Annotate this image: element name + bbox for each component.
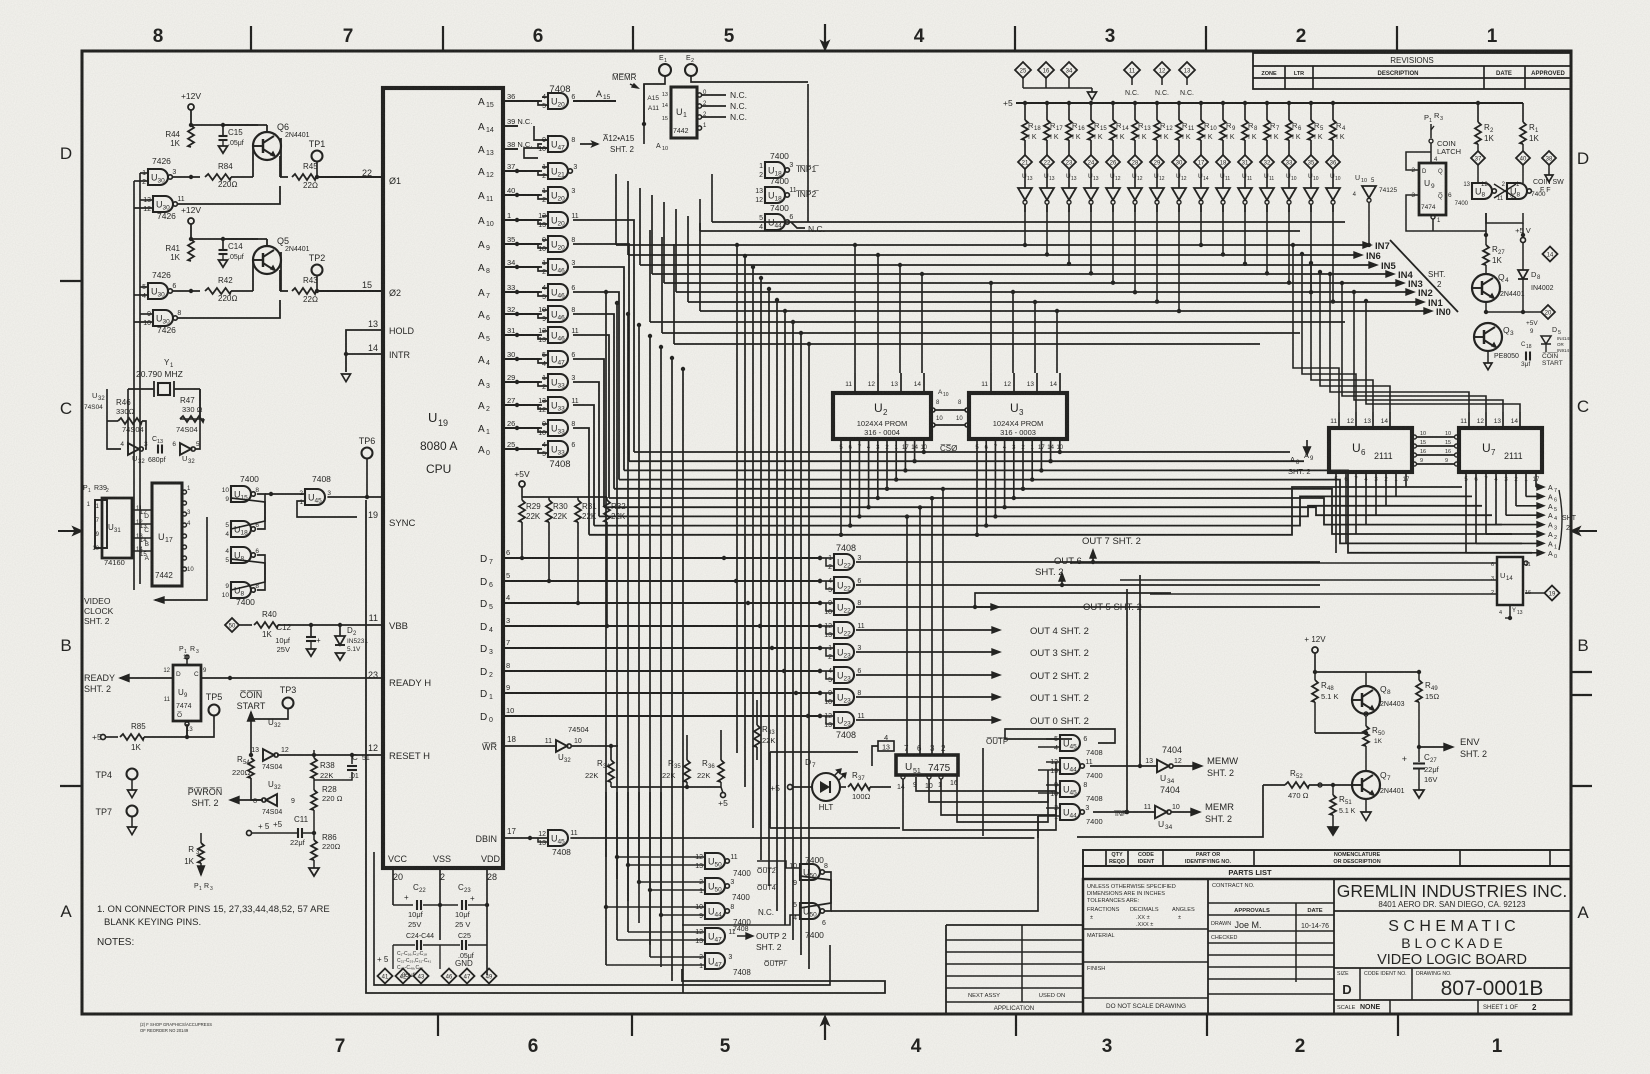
- diamond 19: [1525, 592, 1545, 594]
- resistor R32 22K: [604, 500, 610, 522]
- U45a output loop: [1005, 729, 1115, 743]
- buffer gate U46 at A-row 7: [548, 284, 568, 300]
- PROM top pin 13: [900, 373, 902, 393]
- zener D2 IN5231 5.1V: [338, 623, 342, 627]
- RAM bottom pin 2: [1385, 472, 1387, 506]
- wire corner A-line 0: [573, 220, 634, 452]
- PROM bottom pin 14: [914, 439, 916, 461]
- RAM top pin 11: [1338, 412, 1340, 428]
- resistor R34 22K: [608, 760, 614, 782]
- OUTP wire: [983, 747, 1040, 809]
- sheet center arrow top: [824, 24, 826, 44]
- buffer U13 74125: [1046, 169, 1048, 188]
- gate U44 7400: [1060, 804, 1080, 820]
- sheet center arrow left: [58, 530, 76, 532]
- wire D4 bus: [503, 625, 820, 627]
- wire midbus y534.8 staircase: [589, 487, 1462, 535]
- connector diamond 21: [1018, 155, 1032, 169]
- resistor R48 5.1K: [1312, 680, 1318, 702]
- RAM link pin 15: [1413, 444, 1417, 448]
- resistor R16 1K: [1067, 101, 1071, 105]
- MEMW SHT.2: [1173, 765, 1195, 767]
- test point TP1: [312, 151, 323, 162]
- left edge connector P1R39 stubs: [95, 500, 107, 548]
- net A6 to SHT2: [1526, 495, 1538, 497]
- wire PROM U2 pin feed 0: [854, 245, 856, 373]
- RAM top pin 12: [1485, 412, 1487, 428]
- VBB row: [225, 618, 239, 632]
- resistor R17 1K: [1045, 101, 1049, 105]
- resistor R43 22 ohm: [280, 252, 282, 291]
- wire trunk2 x769: [768, 289, 770, 886]
- wire buffer 0 drop: [1024, 204, 1026, 245]
- resistor R52 470: [1285, 782, 1309, 788]
- net OUT5: [856, 606, 1320, 608]
- gate U44 7400 cluster: [705, 903, 725, 919]
- gate U23 7408 OUT row: [834, 689, 854, 705]
- net OUT1: [856, 696, 992, 698]
- NAND U30 b: [153, 196, 173, 212]
- connector diamond 23: [1062, 155, 1076, 169]
- wire trunk2 x761: [760, 278, 762, 860]
- buffer U13 74125: [1024, 169, 1026, 188]
- capacitor C12 10uF 25V: [309, 623, 313, 627]
- wire trunk x628: [627, 314, 629, 932]
- PROM bottom pin 1: [895, 439, 897, 480]
- parts list row: [1083, 866, 1571, 879]
- wire buffer 14 drop: [1332, 204, 1334, 302]
- buffer U11 74125: [1244, 169, 1246, 188]
- resistor R30 22K: [546, 500, 552, 522]
- RAM bottom pin 17: [1535, 472, 1537, 487]
- SHT 2 diagonal brace: [1390, 240, 1458, 312]
- buffer gate U47 at A-row 1: [548, 136, 568, 152]
- TP6: [362, 448, 373, 459]
- connector diamond 24: [1084, 155, 1098, 169]
- gate U44 7400: [765, 214, 785, 230]
- net OUT0: [856, 719, 992, 721]
- buffer gate U46 at A-row 8: [548, 306, 568, 322]
- wires E1/E2 to U1: [644, 76, 665, 124]
- net OUT7: [856, 561, 1320, 563]
- RAM top pin 13: [1502, 412, 1504, 428]
- +5V pullup rail: [519, 481, 525, 487]
- wire RAM U6 feed 3: [1320, 272, 1390, 412]
- wire RAM U6 feed 2: [1311, 263, 1373, 412]
- RAM link pin 16: [1413, 453, 1417, 457]
- wire D1 bus: [503, 692, 820, 694]
- connector diamond 29: [1150, 155, 1164, 169]
- RAM top pin 14: [1389, 412, 1391, 428]
- left input trunk verticals: [139, 173, 141, 322]
- PROM bottom pin 1: [1031, 439, 1033, 480]
- cross couple wires: [231, 494, 265, 529]
- PROM bottom pin 2: [886, 439, 888, 489]
- RAM bottom pin 7: [1355, 472, 1357, 534]
- resistor R33 22K: [754, 725, 760, 747]
- wire trunk x617: [616, 303, 618, 940]
- PROM bottom pin 5: [840, 439, 842, 535]
- U8 cross wiring: [1477, 165, 1479, 175]
- capacitor C14 .05uF: [222, 239, 224, 249]
- net IN3: [664, 282, 1397, 284]
- capacitor C13 680pf: [157, 445, 159, 454]
- buffer gate U20 at A-row 0: [548, 93, 568, 109]
- buffer gate U46 at A-row 6: [548, 259, 568, 275]
- buffer gate U47 at A-row 10: [548, 351, 568, 367]
- 7400 latch pair U8/U8: [231, 547, 251, 563]
- diamond 14: [1543, 247, 1558, 262]
- wire trunk2 x793: [792, 322, 794, 940]
- RAM bottom pin 1: [1395, 472, 1397, 497]
- wire cluster trunk 5: [660, 792, 662, 967]
- resistor R51 5.1K: [1332, 785, 1334, 795]
- resistor R84 220 ohm: [172, 176, 200, 178]
- wires CPU power pins: [392, 868, 394, 905]
- wire trunk x672: [671, 358, 673, 981]
- wire trunk x650: [649, 336, 651, 957]
- wire trunk2 x777: [776, 300, 778, 911]
- +12V supply: [188, 218, 194, 224]
- PROM bottom pin 6: [849, 439, 851, 526]
- net A4 to SHT2: [1506, 514, 1538, 516]
- +12V: [1312, 647, 1318, 653]
- net A7 to SHT2: [1536, 486, 1538, 488]
- wire corner A-line 3: [573, 292, 619, 480]
- PROM bottom pin 17: [1040, 439, 1042, 470]
- wire nest extra y333: [662, 332, 1300, 334]
- buffer U11 74125: [1266, 169, 1268, 188]
- PROM U2 1024X4 316-0004: [833, 393, 931, 439]
- capacitor C27 22uF 16V: [1418, 747, 1420, 762]
- gate U44 7400: [1060, 758, 1080, 774]
- PROM bottom pin 14: [1050, 439, 1052, 461]
- RAM bottom pin 4: [1365, 472, 1367, 525]
- PROM bottom pin 10: [923, 439, 925, 452]
- wire trunk x683: [682, 369, 684, 993]
- PROM top pin 14: [923, 373, 925, 393]
- resistor R5 1K: [1309, 101, 1313, 105]
- CS0 link between PROMs: [931, 408, 935, 412]
- R27 1K: [1485, 235, 1487, 245]
- resistor R31 22K: [575, 500, 581, 522]
- gate U22 7408 OUT row: [834, 577, 854, 593]
- wire nest extra y344: [674, 343, 1260, 345]
- buffer U10 74125: [1332, 169, 1334, 188]
- wire buffer 8 drop: [1200, 204, 1202, 245]
- resistor R35 22K: [684, 760, 690, 782]
- RAM top pin 12: [1355, 412, 1357, 428]
- net IN5: [640, 264, 1370, 266]
- net IN1: [688, 301, 1417, 303]
- wire U51 pin from data bus: [919, 507, 921, 755]
- resistor R14 1K: [1111, 101, 1115, 105]
- wire trunk2 x785: [784, 311, 786, 925]
- resistor R2 1K: [1477, 103, 1479, 122]
- RAM U7 2111: [1459, 428, 1542, 472]
- RAM link pin 9: [1413, 462, 1417, 466]
- connector diamond 33: [1282, 155, 1296, 169]
- net OUT6: [856, 584, 1320, 586]
- RAM bottom pin 6: [1345, 472, 1347, 544]
- wire U51 pin from data bus: [931, 498, 933, 755]
- ENV SHT.2: [1417, 745, 1421, 749]
- PROM top pin 13: [1036, 373, 1038, 393]
- connector diamond 26: [1106, 155, 1120, 169]
- PROM bottom pin 3: [877, 439, 879, 498]
- resistor R36 22K: [718, 760, 724, 782]
- buffer U12 74125: [1134, 169, 1136, 188]
- decoder U17 7442: [152, 483, 182, 586]
- CPU U19 8080A: [383, 88, 503, 868]
- buffer gate U33 at A-row 14: [548, 441, 568, 457]
- RAM bottom pin 2: [1515, 472, 1517, 506]
- buffer gate U33 at A-row 12: [548, 397, 568, 413]
- wire RAM U6 feed 0: [1293, 245, 1339, 412]
- buffer U10 74125: [1288, 169, 1290, 188]
- RAM bottom pin 5: [1335, 472, 1337, 553]
- wire buffer 10 drop: [1244, 204, 1246, 264]
- resistor R8 1K: [1243, 101, 1247, 105]
- resistor R44 1K: [188, 125, 194, 147]
- wire cluster trunk 2: [627, 792, 629, 901]
- RAM top pin 14: [1519, 412, 1521, 428]
- OUT6 arrow: [1060, 583, 1064, 587]
- PROM top pin 11: [854, 373, 856, 393]
- revisions table: [1253, 53, 1571, 89]
- wire trunk x661: [660, 347, 662, 915]
- buffer U14 74125: [1200, 169, 1202, 188]
- wire buffer 13 drop: [1310, 204, 1312, 292]
- +12V supply: [188, 104, 194, 110]
- PROM bottom pin 3: [1013, 439, 1015, 498]
- wire midbus y525.6 staircase: [594, 496, 1472, 525]
- wire midbus y479.6 staircase: [619, 480, 1522, 544]
- wire PROM U2 pin feed 2: [899, 265, 901, 373]
- buffer gate U33 at A-row 11: [548, 374, 568, 390]
- buffer U11 74125: [1222, 169, 1224, 188]
- counter U31 74160: [102, 498, 132, 558]
- wire DBIN long: [617, 746, 619, 838]
- gate U22 7408 OUT row: [834, 622, 854, 638]
- wire cluster trunk 4: [649, 792, 651, 945]
- wire corner A-line 8: [573, 405, 594, 526]
- wire midbus y488.8 staircase: [614, 489, 1512, 534]
- wires into cross pair: [757, 861, 800, 868]
- N.C. diamonds: [1124, 62, 1140, 78]
- gate U47 7408 cluster: [705, 953, 725, 969]
- RAM bottom pin 17: [1405, 472, 1407, 487]
- wire RAM U7 feed 0: [1330, 274, 1469, 412]
- top diamonds group left: [1015, 62, 1031, 78]
- RAM top pin 13: [1372, 412, 1374, 428]
- connector diamond 36: [1326, 155, 1340, 169]
- resistor R7 1K: [1265, 101, 1269, 105]
- INP2 enable line: [712, 221, 1345, 223]
- wire buffer 3 drop: [1090, 204, 1092, 273]
- transistor Q7 2N4401: [1352, 771, 1380, 799]
- wire PROM U3 pin feed 3: [1056, 311, 1058, 373]
- RESET wire: [277, 754, 383, 756]
- OUTP2 arrow: [737, 935, 747, 937]
- gate U23 7408 OUT row: [834, 667, 854, 683]
- wire buffer 12 drop: [1288, 204, 1290, 283]
- net A5 to SHT2: [1516, 505, 1538, 507]
- wire U51 pin from data bus: [942, 489, 944, 755]
- net IN6: [628, 254, 1355, 256]
- OUT5 arrow: [975, 606, 993, 608]
- wire corner A-line 5: [573, 335, 609, 498]
- PROM bottom pin 2: [1022, 439, 1024, 489]
- net A3 to SHT2: [1496, 524, 1538, 526]
- resistor R11 1K: [1177, 101, 1181, 105]
- wire PROM U2 pin feed 3: [921, 274, 923, 373]
- connector diamond 18: [1216, 155, 1230, 169]
- wire midbus y516.4 staircase: [599, 506, 1482, 517]
- decoder U1 7442: [671, 87, 697, 138]
- HOLD INTR tie: [346, 330, 383, 354]
- PROM top pin 12: [877, 373, 879, 393]
- net IN4: [652, 273, 1387, 275]
- wire midbus y498.0 staircase: [609, 498, 1502, 525]
- DBIN long wire: [792, 837, 806, 839]
- gate U50 7400 cluster: [705, 853, 725, 869]
- net IN0: [700, 310, 1425, 312]
- R50 1K: [1364, 712, 1368, 716]
- sheet center arrow right: [1579, 530, 1597, 532]
- PROM bottom pin 7: [994, 439, 996, 516]
- PROM top pin 12: [1013, 373, 1015, 393]
- PROM bottom pin 10: [1059, 439, 1061, 452]
- wire midbus y452.0 to A8/A9: [634, 451, 1290, 453]
- wire D6 bus: [503, 580, 820, 582]
- resistor R15 1K: [1089, 101, 1093, 105]
- buffer U13 74125: [1068, 169, 1070, 188]
- transistor Q5 2N4401: [253, 246, 281, 274]
- transistor Q3 PE8050: [1474, 323, 1502, 351]
- connector diamond 35: [1304, 155, 1318, 169]
- wire cluster trunk 3: [638, 792, 640, 923]
- gate U23 7408 OUT row: [834, 644, 854, 660]
- buffer U12 74125: [1112, 169, 1114, 188]
- buffer gate U21 at A-row 2: [548, 163, 568, 179]
- U1 outputs N.C.: [697, 93, 701, 97]
- transistor Q8 2N4403: [1352, 686, 1380, 714]
- wire PROM U3 pin feed 0: [990, 283, 992, 373]
- wire buffer 11 drop: [1266, 204, 1268, 273]
- +5 stub: [610, 782, 612, 787]
- wire corner A-line 9: [573, 428, 589, 535]
- bottom staircase line 2: [374, 852, 830, 985]
- wire corner A-line 6: [573, 359, 604, 507]
- wire U51 pin from data bus: [906, 517, 908, 755]
- resistor R42 220 ohm: [172, 290, 200, 292]
- RAM bottom pin 4: [1495, 472, 1497, 525]
- RAM U6 2111: [1329, 428, 1412, 472]
- long feed wire to R52: [1077, 785, 1263, 837]
- wire trunk2 x745: [744, 256, 746, 787]
- wire cluster trunk 0: [605, 792, 607, 857]
- net OUT3: [856, 651, 992, 653]
- wire RAM U7 feed 1: [1342, 283, 1486, 412]
- wire D2 bus: [503, 670, 820, 672]
- wire buffer 5 drop: [1134, 204, 1136, 292]
- buffer U10 74125: [1310, 169, 1312, 188]
- parts list header bar: [1083, 850, 1571, 866]
- connector diamond 30: [1172, 155, 1186, 169]
- buffer gate U46 at A-row 9: [548, 327, 568, 343]
- NAND U30 b: [153, 310, 173, 326]
- resistor R12 1K: [1155, 101, 1159, 105]
- RAM bottom pin 3: [1505, 472, 1507, 515]
- test point TP2: [312, 265, 323, 276]
- capacitor C23: [440, 904, 458, 906]
- connector diamond 28: [1128, 155, 1142, 169]
- net A2 to SHT2: [1486, 533, 1538, 535]
- wire cluster trunk 1: [616, 792, 618, 879]
- gate U45 7408: [1060, 735, 1080, 751]
- RAM bottom pin 5: [1465, 472, 1467, 553]
- wire D3 bus: [503, 647, 820, 649]
- A12.A15 SHT.2 arrow: [580, 143, 598, 145]
- wire buffer 6 drop: [1156, 204, 1158, 302]
- wire from U50 cross pair to right: [812, 924, 887, 926]
- PROM bottom pin 5: [976, 439, 978, 535]
- wire trunk x606: [605, 292, 607, 965]
- wire Q4 emitter to diamond 20: [1485, 302, 1487, 313]
- RAM top pin 11: [1468, 412, 1470, 428]
- application table: [946, 924, 1083, 926]
- wire buffer 7 drop: [1178, 204, 1180, 311]
- wire midbus y470.4 staircase: [624, 470, 1532, 552]
- gate U22 7408 OUT row: [834, 599, 854, 615]
- wire RAM U7 feed 2: [1354, 292, 1503, 412]
- buffer gate U20 at A-row 4: [548, 212, 568, 228]
- Q7 emitter gnd: [1365, 799, 1367, 812]
- PROM bottom pin 6: [985, 439, 987, 526]
- wires down from OUT area to gates: [1126, 589, 1128, 812]
- buffer gate U20 at A-row 5: [548, 236, 568, 252]
- wire PROM U3 pin feed 2: [1034, 302, 1036, 373]
- gate U18 7400: [765, 187, 785, 203]
- inverter input wire MEMW: [1090, 765, 1157, 767]
- gate U22 7408 OUT row: [834, 554, 854, 570]
- gate U23 7408 OUT row: [834, 712, 854, 728]
- net A1 to SHT2: [1476, 542, 1538, 544]
- OUT7 arrow up: [1091, 560, 1095, 564]
- wire D0 bus: [503, 715, 820, 717]
- transistor Q4 2N4401: [1472, 274, 1500, 302]
- PROM top pin 14: [1059, 373, 1061, 393]
- wire corner A-line 7: [573, 382, 599, 516]
- cross wires: [800, 872, 831, 908]
- wire trunk2 x801: [800, 333, 802, 955]
- resistor R29 22K: [519, 500, 525, 522]
- resistor R45 22 ohm: [280, 138, 282, 177]
- diamond 20 +5V D5: [1541, 305, 1555, 319]
- resistor R1 1K: [1522, 103, 1524, 122]
- lower long wires to U14 area verticals: [1069, 563, 1071, 590]
- osc wiring: [107, 388, 128, 390]
- net A0 to SHT2: [1466, 552, 1538, 554]
- wire buffer 4 drop: [1112, 204, 1114, 283]
- PROM bottom pin 4: [868, 439, 870, 507]
- wire corner A-line 2: [573, 267, 624, 470]
- buffer gate U33 at A-row 13: [548, 420, 568, 436]
- wire buffer 9 drop: [1222, 204, 1224, 254]
- wire RAM U7 feed 3: [1366, 301, 1520, 412]
- wire RAM U6 feed 1: [1302, 254, 1356, 412]
